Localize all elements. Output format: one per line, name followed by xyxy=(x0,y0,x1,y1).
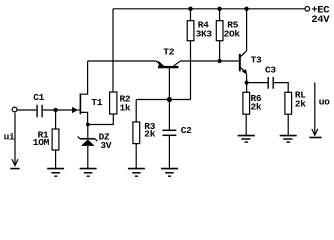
svg-text:1OM: 1OM xyxy=(33,137,50,148)
wire emitter node to C3 xyxy=(247,82,268,84)
wire T2 collector to T3 base xyxy=(180,60,239,62)
terminal bar under uo arrow xyxy=(309,137,321,139)
wire base-bias horizontal y=99.5 xyxy=(136,99,190,101)
svg-text:2Ok: 2Ok xyxy=(224,29,241,40)
svg-text:3K3: 3K3 xyxy=(196,29,213,40)
svg-text:uo: uo xyxy=(319,97,330,108)
svg-text:24V: 24V xyxy=(311,14,330,26)
svg-text:2k: 2k xyxy=(251,101,262,112)
node rail dot T3 xyxy=(244,7,248,11)
node gate junction dot xyxy=(53,108,57,112)
svg-text:T3: T3 xyxy=(251,54,262,65)
wire source node to R2 bottom xyxy=(88,114,114,125)
wire T2 base down xyxy=(168,68,170,129)
ground under DZ xyxy=(80,168,97,170)
node emitter junction dot xyxy=(245,81,249,85)
svg-text:1k: 1k xyxy=(120,102,131,113)
node bias junction dot xyxy=(167,97,172,102)
svg-text:C2: C2 xyxy=(181,125,192,136)
wire uo arrow xyxy=(314,82,316,134)
wire C3 to RL xyxy=(274,83,288,93)
wire ui source arrow xyxy=(14,113,16,165)
transistor T3 emitter arrow xyxy=(241,68,245,72)
svg-text:3V: 3V xyxy=(100,140,111,151)
transistor T3 bar xyxy=(239,54,241,72)
svg-text:C3: C3 xyxy=(265,64,276,75)
wire top supply rail xyxy=(113,8,305,10)
transistor T2 collector lead xyxy=(174,61,180,66)
ground under RL xyxy=(280,135,297,137)
diode DZ zener xyxy=(87,125,89,139)
transistor T2 emitter arrow xyxy=(156,61,161,64)
resistor RL xyxy=(285,92,292,114)
capacitor C3 xyxy=(267,77,269,89)
transistor T1 source lead xyxy=(80,112,87,124)
node input terminal circle xyxy=(12,107,17,112)
ground under R6 xyxy=(238,135,255,137)
svg-text:2k: 2k xyxy=(144,129,155,140)
svg-text:ui: ui xyxy=(4,132,15,143)
transistor T3 collector lead xyxy=(241,9,247,57)
node source junction dot xyxy=(86,123,90,127)
resistor R2 xyxy=(110,92,117,114)
capacitor C1 xyxy=(36,105,38,117)
svg-text:T2: T2 xyxy=(163,47,174,58)
transistor T2 bar xyxy=(158,66,179,68)
resistor R5 xyxy=(217,7,221,11)
node EC terminal circle xyxy=(305,7,310,12)
svg-text:T1: T1 xyxy=(91,97,102,108)
capacitor C2 xyxy=(163,129,177,131)
resistor R6 xyxy=(243,92,250,114)
resistor R1 xyxy=(55,110,57,129)
wire left drop from rail to R2 xyxy=(112,9,114,92)
ground under C2 xyxy=(161,168,178,170)
wire C1 to gate node xyxy=(43,109,73,111)
wire input to C1 xyxy=(18,109,37,111)
ground under R1 xyxy=(47,168,64,170)
ground under R3 xyxy=(128,168,145,170)
transistor T1 channel bar xyxy=(79,93,81,114)
terminal bar under ui arrow xyxy=(10,168,19,170)
transistor T1 drain lead xyxy=(80,61,87,94)
wire T1 drain to T2 emitter xyxy=(88,60,156,62)
svg-text:2k: 2k xyxy=(295,99,306,110)
resistor R4 xyxy=(188,7,192,11)
svg-text:C1: C1 xyxy=(33,92,44,103)
transistor T1 gate arrow xyxy=(72,107,78,113)
resistor R3 xyxy=(135,100,137,123)
